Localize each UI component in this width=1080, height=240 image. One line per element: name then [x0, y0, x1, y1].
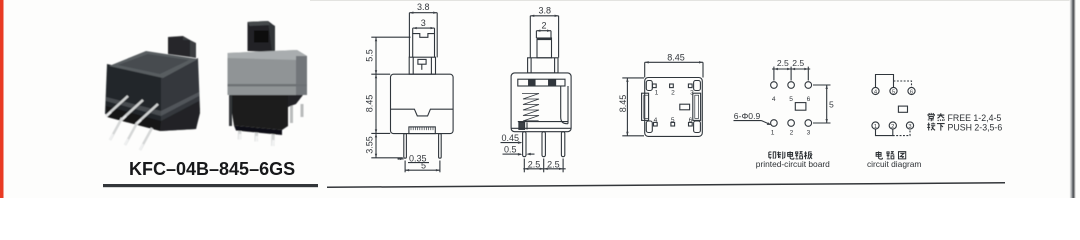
- svg-text:5.5: 5.5: [365, 49, 375, 62]
- terminal square 4: [654, 122, 658, 126]
- collar (side view): [528, 58, 558, 73]
- right side slot: [693, 93, 701, 120]
- corner tab bottom-left: [646, 121, 652, 133]
- dim 8.45 horizontal (top view): [645, 52, 703, 77]
- svg-text:0.5: 0.5: [504, 145, 517, 155]
- svg-text:1: 1: [771, 130, 775, 137]
- wire: dashed link 2-3: [893, 129, 910, 135]
- long separator line under drawings: [327, 183, 1005, 188]
- terminal circle 5: [890, 87, 897, 94]
- photo: switch sample left (angled view): [105, 36, 200, 150]
- front pins (photo 2): [240, 122, 274, 146]
- terminal square 6: [689, 122, 693, 126]
- note line 2: 按下 PUSH 2-3,5-6: [927, 123, 944, 131]
- svg-text:5: 5: [421, 161, 426, 171]
- svg-text:1: 1: [655, 89, 659, 96]
- leader 6-d0.9 (hole diameter): [734, 111, 772, 125]
- wire: solid link 4-5: [876, 75, 894, 88]
- dim 2 (side view plunger): [536, 20, 551, 38]
- dim 2.5/2.5 (hole pitch): [772, 58, 810, 81]
- hole 2: [788, 120, 795, 127]
- svg-text:3: 3: [690, 89, 694, 96]
- svg-text:6: 6: [807, 96, 811, 103]
- terminal circle 3: [906, 122, 913, 129]
- body (front view): [391, 74, 454, 133]
- svg-text:3.55: 3.55: [365, 136, 375, 154]
- svg-text:3.8: 3.8: [538, 5, 551, 15]
- dim 3.8 (side view top): [530, 5, 558, 57]
- hole 5: [788, 82, 795, 89]
- lower body black (photo 2): [229, 95, 288, 130]
- pin left (front view): [404, 134, 407, 159]
- page edge shadow line (right): [1070, 0, 1076, 198]
- upper body light gray (photo 2): [228, 50, 308, 95]
- svg-text:2: 2: [671, 89, 675, 96]
- svg-text:2: 2: [541, 20, 546, 30]
- title underline (thick): [103, 184, 318, 187]
- svg-text:2.5: 2.5: [792, 58, 804, 68]
- terminal circle 6: [908, 87, 915, 94]
- plunger (side view, thick top): [537, 38, 552, 58]
- svg-text:2.5: 2.5: [547, 160, 560, 170]
- body outline (top view): [645, 78, 703, 137]
- body right face (photo 1): [161, 58, 200, 131]
- svg-text:4: 4: [772, 96, 776, 103]
- center keying rectangle (circuit): [898, 106, 907, 112]
- svg-text:1: 1: [874, 124, 877, 130]
- svg-text:3: 3: [421, 18, 426, 28]
- pin 2 (side view): [542, 132, 545, 157]
- svg-text:printed-circuit board: printed-circuit board: [756, 159, 830, 169]
- dim 0.45 leader: [501, 133, 523, 144]
- svg-text:2.5: 2.5: [528, 160, 541, 170]
- caption: 印制电路板 (chinese): [769, 151, 812, 159]
- svg-text:2: 2: [891, 124, 894, 130]
- svg-text:2.5: 2.5: [777, 58, 789, 68]
- dim 5 vertical (row pitch): [813, 85, 834, 123]
- terminal square 2: [670, 84, 674, 88]
- step line with center notch: [391, 109, 454, 116]
- svg-text:5: 5: [789, 96, 793, 103]
- svg-text:8.45: 8.45: [618, 95, 628, 113]
- terminal circle 1: [872, 122, 879, 129]
- svg-text:8.45: 8.45: [365, 95, 375, 113]
- plunger (front view): [413, 34, 435, 58]
- internal slider bar with two contact blocks: [518, 79, 565, 86]
- left side slot: [642, 93, 649, 120]
- hole 6: [805, 82, 812, 89]
- dim 8.45 vertical (top view): [618, 78, 644, 136]
- right contact channel: [561, 86, 568, 124]
- hole 1: [771, 120, 778, 127]
- photo: switch sample right (front view): [228, 21, 308, 146]
- body top face (photo 1): [109, 51, 198, 78]
- pin 3 (side view): [561, 132, 564, 157]
- svg-text:5: 5: [829, 99, 834, 109]
- svg-text:KFC–04B–845–6GS: KFC–04B–845–6GS: [129, 159, 295, 179]
- svg-text:3: 3: [908, 124, 911, 130]
- dim 5 (pin spacing, front view): [405, 161, 440, 173]
- collar (front view): [409, 57, 435, 74]
- back pins visible right (photo 2): [292, 103, 303, 123]
- note line 1: 常态 FREE 1-2,4-5: [927, 113, 944, 121]
- pin right (front view): [439, 134, 442, 159]
- caption: 电路图 (chinese): [876, 151, 906, 159]
- dim 3 (front view plunger): [413, 18, 435, 34]
- dim 0.35 leader (pin width): [397, 153, 429, 163]
- dim 3.8 (front view top): [409, 2, 437, 57]
- bottom-left terminal block: [519, 122, 527, 129]
- svg-text:6-Φ0.9: 6-Φ0.9: [734, 111, 761, 121]
- pin row upper (photo 1): [106, 96, 158, 124]
- svg-text:5: 5: [892, 89, 895, 95]
- corner tab top-right: [694, 81, 701, 91]
- terminal square 5: [671, 122, 675, 126]
- base section (photo 1): [106, 106, 161, 131]
- terminal circle 4: [872, 87, 879, 94]
- internal floor line: [518, 121, 568, 123]
- svg-text:0.45: 0.45: [502, 133, 520, 143]
- hole 3: [805, 120, 812, 127]
- corner tab bottom-right: [694, 121, 701, 133]
- wire: solid link 1-2: [876, 129, 893, 136]
- svg-text:2: 2: [790, 130, 794, 137]
- corner tab top-left: [646, 81, 652, 91]
- plunger (photo 1): [168, 36, 190, 57]
- pin 1 (side view): [523, 132, 526, 157]
- base strip (hatched): [409, 127, 435, 134]
- center keying rectangle (top view): [680, 104, 690, 110]
- terminal square 3: [688, 84, 692, 88]
- svg-text:3: 3: [807, 130, 811, 137]
- coil spring (side view): [522, 94, 539, 122]
- pin row lower (photo 1): [110, 118, 152, 150]
- terminal square 1: [653, 84, 657, 88]
- red margin stripe: [0, 0, 4, 198]
- svg-text:6: 6: [910, 89, 913, 95]
- center keying hole (pcb): [795, 103, 806, 111]
- svg-text:8.45: 8.45: [667, 52, 685, 62]
- seam lines (photo 2): [228, 84, 308, 86]
- wire: dashed link 5-6: [894, 81, 912, 87]
- vertical dimension chain 5.5 / 8.45 / 3.55: [365, 37, 411, 158]
- dim 2.5 / 2.5 (pin pitch, side view): [523, 159, 565, 173]
- plunger (photo 2): [248, 21, 273, 52]
- svg-text:circuit diagram: circuit diagram: [867, 159, 921, 169]
- side highlights (photo 2): [229, 95, 232, 126]
- hole 4: [771, 82, 778, 89]
- dim 0.5 leader: [503, 145, 535, 156]
- svg-text:3.8: 3.8: [417, 2, 430, 12]
- base plate line (side view): [511, 127, 571, 129]
- mid seam highlight (photo 1): [106, 97, 161, 116]
- body left-front face (photo 1): [105, 64, 163, 131]
- faint page top edge: [310, 0, 1072, 1]
- svg-text:PUSH 2-3,5-6: PUSH 2-3,5-6: [948, 122, 1003, 132]
- body (side view): [511, 73, 571, 132]
- terminal circle 2: [889, 122, 896, 129]
